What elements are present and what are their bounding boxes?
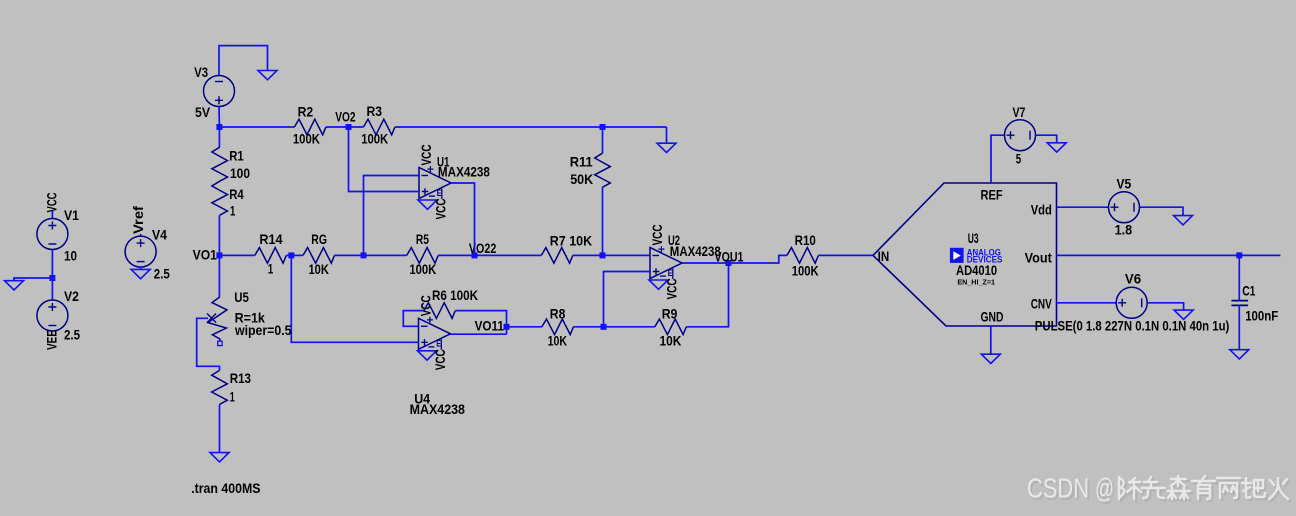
node junction bbox=[361, 252, 367, 258]
node VO22 bbox=[472, 252, 478, 258]
svg-text:C1: C1 bbox=[1242, 283, 1255, 299]
resistor R11 bbox=[602, 127, 604, 153]
ground bbox=[1174, 216, 1193, 225]
wire (Vout rail) bbox=[1057, 254, 1281, 256]
svg-text:V2: V2 bbox=[64, 288, 79, 304]
svg-text:IN: IN bbox=[878, 248, 890, 264]
svg-text:V4: V4 bbox=[152, 226, 167, 242]
svg-text:U5: U5 bbox=[234, 289, 249, 305]
wire bbox=[729, 255, 787, 263]
wire bbox=[602, 187, 604, 255]
wire bbox=[1057, 302, 1116, 304]
wire bbox=[1057, 206, 1109, 208]
svg-text:10K: 10K bbox=[660, 332, 682, 348]
resistor R10 bbox=[787, 248, 819, 264]
svg-text:VCC: VCC bbox=[44, 193, 60, 213]
svg-text:@: @ bbox=[1095, 473, 1114, 504]
node junction bbox=[49, 275, 55, 281]
voltage source V3 bbox=[204, 76, 235, 107]
svg-text:R1: R1 bbox=[229, 148, 244, 164]
resistor R5 bbox=[407, 248, 439, 264]
svg-text:R6 100K: R6 100K bbox=[432, 287, 478, 303]
svg-text:MAX4238: MAX4238 bbox=[670, 243, 721, 259]
voltage source V6 bbox=[1116, 287, 1147, 318]
wire bbox=[991, 135, 1005, 183]
voltage source V5 bbox=[1109, 192, 1140, 223]
op-amp U4 bbox=[418, 295, 451, 370]
svg-text:DEVICES: DEVICES bbox=[967, 254, 1003, 264]
node VO2 bbox=[346, 124, 352, 130]
op-amp U1 bbox=[418, 145, 451, 220]
wire bbox=[686, 263, 728, 327]
svg-text:10K: 10K bbox=[548, 332, 567, 348]
resistor RG bbox=[303, 248, 335, 264]
wire bbox=[682, 262, 729, 264]
wire bbox=[286, 254, 303, 256]
resistor R2 bbox=[294, 119, 326, 135]
svg-text:EN_HI_Z=1: EN_HI_Z=1 bbox=[957, 278, 995, 287]
ground bbox=[657, 143, 676, 152]
wire bbox=[455, 311, 506, 335]
wire bbox=[1148, 303, 1184, 310]
wire bbox=[364, 176, 420, 256]
wire bbox=[573, 326, 654, 328]
wire bbox=[818, 254, 873, 256]
ground bbox=[258, 71, 277, 80]
svg-text:1: 1 bbox=[268, 261, 274, 277]
svg-text:R5: R5 bbox=[416, 231, 429, 247]
svg-text:VO11: VO11 bbox=[475, 317, 504, 333]
svg-text:100: 100 bbox=[230, 165, 250, 181]
svg-text:R9: R9 bbox=[662, 306, 678, 322]
wire bbox=[395, 126, 667, 128]
svg-text:V6: V6 bbox=[1125, 271, 1141, 287]
svg-text:U3: U3 bbox=[968, 230, 979, 246]
svg-text:Vdd: Vdd bbox=[1031, 201, 1052, 217]
node junction bbox=[288, 252, 294, 258]
svg-text:VEE: VEE bbox=[44, 330, 60, 350]
wire bbox=[335, 254, 407, 256]
wire bbox=[604, 272, 651, 327]
svg-text:5V: 5V bbox=[195, 104, 211, 120]
wire bbox=[326, 126, 364, 128]
wire (top rail) bbox=[219, 126, 294, 128]
svg-text:1.8: 1.8 bbox=[1115, 222, 1133, 238]
svg-text:R2: R2 bbox=[298, 104, 314, 120]
wire bbox=[451, 183, 475, 255]
wire bbox=[438, 254, 541, 256]
wire bbox=[51, 250, 53, 279]
svg-text:CNV: CNV bbox=[1031, 296, 1053, 312]
svg-text:VOU1: VOU1 bbox=[715, 249, 744, 265]
voltage source V2 bbox=[51, 278, 53, 300]
svg-text:R3: R3 bbox=[367, 103, 383, 119]
svg-text:100K: 100K bbox=[293, 130, 320, 146]
voltage source V7 bbox=[1005, 120, 1036, 151]
svg-text:100K: 100K bbox=[792, 262, 819, 278]
wire bbox=[291, 255, 418, 342]
resistor R8 bbox=[542, 319, 574, 335]
svg-text:VO1: VO1 bbox=[193, 247, 217, 263]
ground bbox=[1174, 310, 1193, 319]
svg-text:V3: V3 bbox=[194, 64, 208, 80]
potentiometer U5 bbox=[208, 297, 227, 341]
wire bbox=[14, 278, 52, 281]
resistor R9 bbox=[655, 319, 687, 335]
svg-text:2.5: 2.5 bbox=[64, 327, 80, 343]
svg-text:R14: R14 bbox=[259, 231, 282, 247]
svg-text:R7 10K: R7 10K bbox=[550, 233, 592, 249]
wire bbox=[197, 318, 220, 370]
svg-text:AD4010: AD4010 bbox=[956, 262, 997, 278]
svg-text:V5: V5 bbox=[1117, 176, 1132, 192]
svg-text:V7: V7 bbox=[1013, 104, 1026, 120]
svg-text:RG: RG bbox=[311, 231, 327, 247]
svg-text:1: 1 bbox=[230, 203, 235, 219]
wire bbox=[218, 127, 220, 147]
capacitor C1 bbox=[1231, 301, 1248, 306]
wire bbox=[218, 107, 220, 128]
svg-text:100nF: 100nF bbox=[1245, 307, 1278, 323]
Analog Devices logo bbox=[950, 247, 1002, 264]
wire bbox=[1238, 255, 1240, 300]
wire bbox=[666, 127, 668, 143]
svg-text:REF: REF bbox=[981, 186, 1003, 202]
node junction bbox=[1236, 252, 1242, 258]
svg-text:VO2: VO2 bbox=[335, 109, 356, 125]
watermark CSDN bbox=[1029, 475, 1290, 506]
ground bbox=[1047, 143, 1066, 152]
svg-text:2.5: 2.5 bbox=[154, 266, 170, 282]
wire bbox=[507, 326, 542, 328]
svg-text:5: 5 bbox=[1016, 150, 1022, 166]
svg-text:CSDN: CSDN bbox=[1027, 473, 1089, 504]
svg-text:100K: 100K bbox=[361, 130, 388, 146]
ground bbox=[140, 267, 142, 269]
node junction bbox=[600, 124, 606, 130]
node junction bbox=[601, 324, 607, 330]
svg-text:R10: R10 bbox=[795, 232, 816, 248]
wire bbox=[219, 404, 221, 452]
svg-text:V1: V1 bbox=[64, 207, 79, 223]
resistor R6 bbox=[424, 303, 456, 319]
ground bbox=[1230, 350, 1249, 359]
resistor R14 bbox=[255, 248, 286, 264]
wire bbox=[1238, 306, 1240, 350]
voltage source V1 bbox=[51, 211, 53, 219]
node VO11 bbox=[504, 324, 510, 330]
svg-text:10: 10 bbox=[64, 247, 77, 263]
svg-text:R8: R8 bbox=[550, 306, 566, 322]
svg-text:GND: GND bbox=[981, 308, 1004, 324]
svg-text:PULSE(0 1.8 227N 0.1N 0.1N 40n: PULSE(0 1.8 227N 0.1N 0.1N 40n 1u) bbox=[1035, 317, 1230, 333]
resistor R4 bbox=[212, 181, 228, 215]
ground bbox=[5, 281, 24, 290]
ground bbox=[210, 453, 229, 462]
resistor R3 bbox=[363, 119, 395, 135]
svg-text:VO22: VO22 bbox=[469, 240, 497, 256]
svg-text:R11: R11 bbox=[570, 153, 593, 169]
wire bbox=[219, 46, 268, 76]
node VOU1 bbox=[726, 260, 732, 266]
svg-text:MAX4238: MAX4238 bbox=[410, 401, 466, 417]
node junction bbox=[600, 252, 606, 258]
wire bbox=[403, 311, 424, 327]
svg-text:R4: R4 bbox=[229, 186, 244, 202]
wire bbox=[1140, 207, 1183, 215]
wire bbox=[1036, 135, 1057, 143]
svg-text:MAX4238: MAX4238 bbox=[438, 164, 490, 180]
wire bbox=[219, 254, 254, 256]
wire bbox=[218, 215, 220, 255]
svg-text:50K: 50K bbox=[570, 171, 593, 187]
resistor R1 bbox=[212, 147, 228, 181]
wire bbox=[573, 254, 650, 256]
svg-text:.tran 400MS: .tran 400MS bbox=[191, 480, 260, 496]
svg-text:1: 1 bbox=[230, 388, 235, 404]
wire bbox=[990, 326, 992, 354]
svg-text:100K: 100K bbox=[409, 261, 436, 277]
node VO1 bbox=[216, 252, 222, 258]
wire bbox=[218, 255, 220, 297]
op-amp U2 bbox=[649, 225, 682, 300]
resistor R7 bbox=[541, 248, 573, 264]
ground bbox=[981, 354, 1000, 363]
svg-text:Vref: Vref bbox=[130, 206, 146, 234]
svg-text:wiper=0.5: wiper=0.5 bbox=[234, 322, 292, 338]
resistor R13 bbox=[212, 370, 228, 404]
svg-text:10K: 10K bbox=[309, 261, 329, 277]
node junction bbox=[216, 124, 222, 130]
svg-text:Vout: Vout bbox=[1025, 250, 1052, 266]
ADC U3 AD4010 bbox=[873, 183, 1057, 326]
voltage source V4 bbox=[140, 234, 142, 236]
wire bbox=[451, 333, 507, 335]
svg-text:R13: R13 bbox=[230, 370, 251, 386]
wire bbox=[349, 127, 420, 192]
